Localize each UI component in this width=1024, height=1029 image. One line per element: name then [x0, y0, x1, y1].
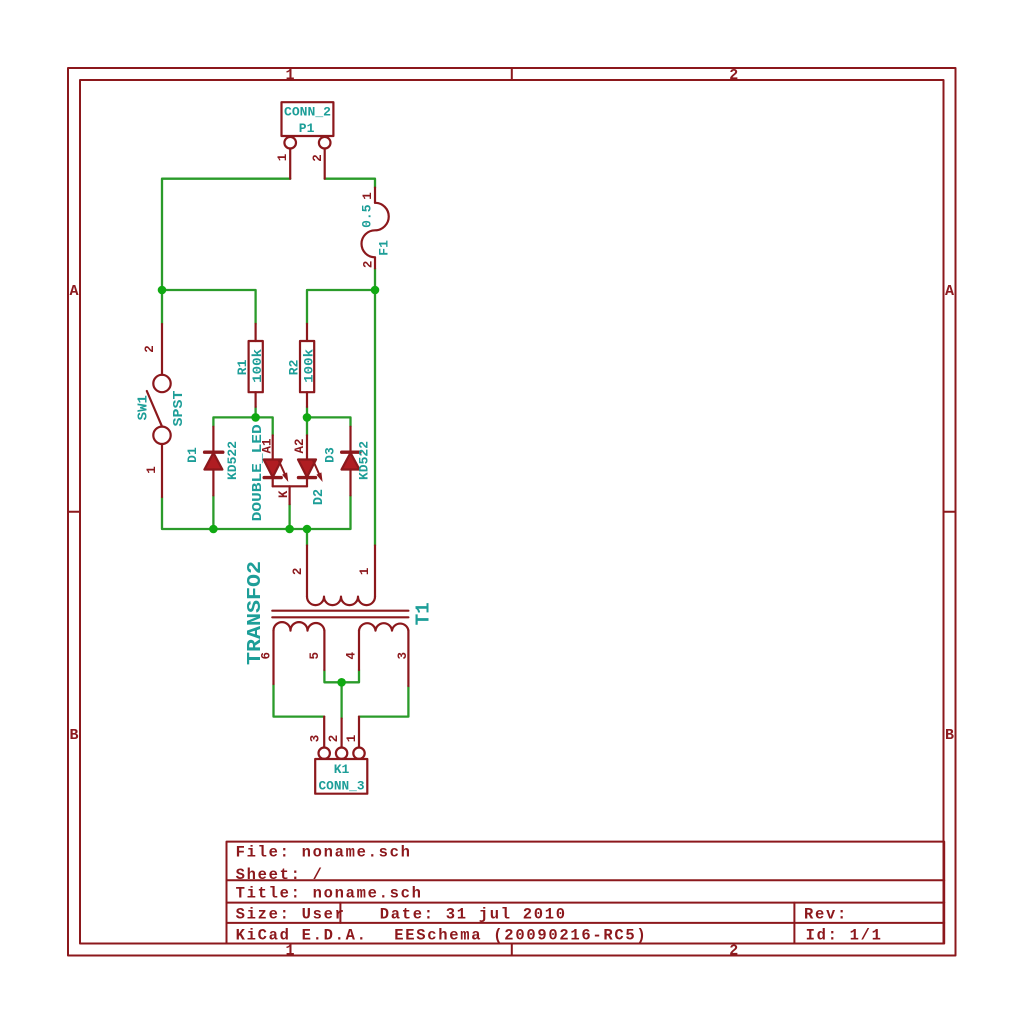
svg-text:CONN_3: CONN_3 — [319, 778, 365, 793]
svg-text:B: B — [945, 727, 954, 744]
svg-text:1: 1 — [285, 67, 294, 84]
svg-text:KiCad E.D.A.: KiCad E.D.A. — [236, 927, 368, 945]
svg-text:5: 5 — [308, 652, 322, 660]
wire D1 bottom to bus — [212, 495, 214, 529]
junction fuse bottom — [371, 286, 380, 295]
svg-text:2: 2 — [143, 345, 157, 353]
svg-text:D2: D2 — [312, 489, 327, 505]
wire P1.2 to fuse F1 — [325, 179, 375, 188]
svg-text:K1: K1 — [334, 762, 350, 777]
svg-text:1: 1 — [276, 154, 290, 162]
resistor R2 — [300, 324, 314, 407]
resistor R1 — [249, 324, 263, 407]
svg-text:2: 2 — [729, 943, 738, 960]
svg-text:2: 2 — [327, 735, 341, 743]
svg-text:KD522: KD522 — [356, 441, 371, 480]
svg-text:2: 2 — [729, 67, 738, 84]
svg-text:SPST: SPST — [171, 391, 187, 427]
connector P1 CONN_2 — [282, 102, 334, 179]
svg-text:A: A — [69, 283, 78, 300]
svg-text:2: 2 — [362, 261, 376, 269]
svg-text:R2: R2 — [287, 359, 302, 375]
svg-text:Date: 31 jul 2010: Date: 31 jul 2010 — [380, 905, 567, 923]
svg-text:Title: noname.sch: Title: noname.sch — [236, 885, 423, 903]
wire R2 bottom to node — [306, 407, 308, 418]
title block — [227, 842, 945, 944]
svg-text:R1: R1 — [235, 359, 250, 375]
svg-text:1: 1 — [358, 568, 372, 576]
wire right column to T1 pin 1 — [374, 290, 376, 546]
wire R1 bottom to node — [254, 407, 256, 418]
svg-text:EESchema (20090216-RC5): EESchema (20090216-RC5) — [394, 927, 647, 945]
svg-text:4: 4 — [344, 651, 358, 659]
D2 LED arrow A1 — [278, 460, 288, 483]
svg-text:TRANSFO2: TRANSFO2 — [244, 561, 266, 665]
svg-text:0.5: 0.5 — [360, 204, 375, 228]
transformer T1 TRANSFO2 — [272, 546, 408, 687]
fuse F1 — [362, 188, 389, 269]
sheet outer frame — [68, 68, 956, 956]
svg-text:Sheet: /: Sheet: / — [236, 866, 324, 884]
svg-text:Id: 1/1: Id: 1/1 — [806, 927, 883, 945]
svg-text:1: 1 — [361, 192, 375, 200]
svg-text:100k: 100k — [302, 349, 317, 383]
connector K1 CONN_3 — [315, 717, 367, 794]
svg-text:3: 3 — [396, 652, 410, 660]
junction R2 bottom — [303, 413, 312, 422]
junction bus left — [209, 525, 218, 534]
svg-text:D1: D1 — [185, 447, 200, 463]
wire node to LED A2 — [306, 417, 308, 435]
diode D3 — [342, 427, 360, 496]
svg-text:A2: A2 — [293, 438, 307, 453]
junction center tap — [337, 678, 346, 687]
wire LED K to bus — [288, 504, 290, 529]
wire center tap down to K1 pin 2 — [340, 682, 342, 718]
svg-text:P1: P1 — [299, 121, 315, 136]
svg-text:CONN_2: CONN_2 — [284, 105, 331, 120]
D2 LED arrow A2 — [313, 460, 323, 483]
svg-text:T1: T1 — [413, 602, 435, 625]
svg-text:1: 1 — [285, 943, 294, 960]
wire left column to R1 top — [162, 290, 256, 324]
junction R1 bottom — [251, 413, 260, 422]
double LED D2 — [264, 435, 316, 504]
svg-text:DOUBLE_LED: DOUBLE_LED — [251, 424, 266, 521]
wire node to R2 top — [307, 290, 375, 324]
junction bus T1 pin2 — [303, 525, 312, 534]
svg-text:A: A — [945, 283, 954, 300]
wire node to D3 top — [307, 417, 351, 426]
svg-text:100k: 100k — [250, 349, 265, 383]
svg-text:D3: D3 — [323, 447, 338, 463]
wire T1 pin 6 to K1 pin 3 — [274, 684, 325, 717]
svg-text:2: 2 — [291, 568, 305, 576]
wire T1 pin 3 to K1 pin 1 — [359, 686, 408, 717]
svg-text:2: 2 — [311, 154, 325, 162]
junction left column — [158, 286, 167, 295]
wire T1 center tap — [324, 670, 359, 682]
junction LED K — [285, 525, 294, 534]
svg-text:SW1: SW1 — [136, 395, 152, 420]
svg-text:File: noname.sch: File: noname.sch — [236, 844, 412, 862]
svg-text:1: 1 — [345, 735, 359, 743]
svg-text:B: B — [69, 727, 78, 744]
wire bus to T1 pin 2 — [306, 529, 308, 546]
wire P1.1 to left column — [162, 179, 290, 290]
svg-text:F1: F1 — [377, 240, 392, 256]
diode D1 — [204, 427, 222, 496]
svg-text:K: K — [277, 490, 291, 498]
wire D1 top leg — [213, 417, 272, 435]
wire left column to SW1 pin 2 — [161, 290, 163, 324]
svg-text:Rev:: Rev: — [804, 905, 848, 923]
switch SW1 SPST — [147, 324, 171, 497]
svg-text:KD522: KD522 — [225, 441, 240, 480]
svg-text:Size: User: Size: User — [236, 905, 346, 923]
svg-text:3: 3 — [308, 735, 322, 743]
svg-text:1: 1 — [145, 466, 159, 474]
wire SW1 pin 1 to bottom bus — [162, 497, 213, 529]
wire fuse F1 bottom to node — [374, 268, 376, 290]
wire bottom bus to D3 bottom — [213, 495, 350, 529]
